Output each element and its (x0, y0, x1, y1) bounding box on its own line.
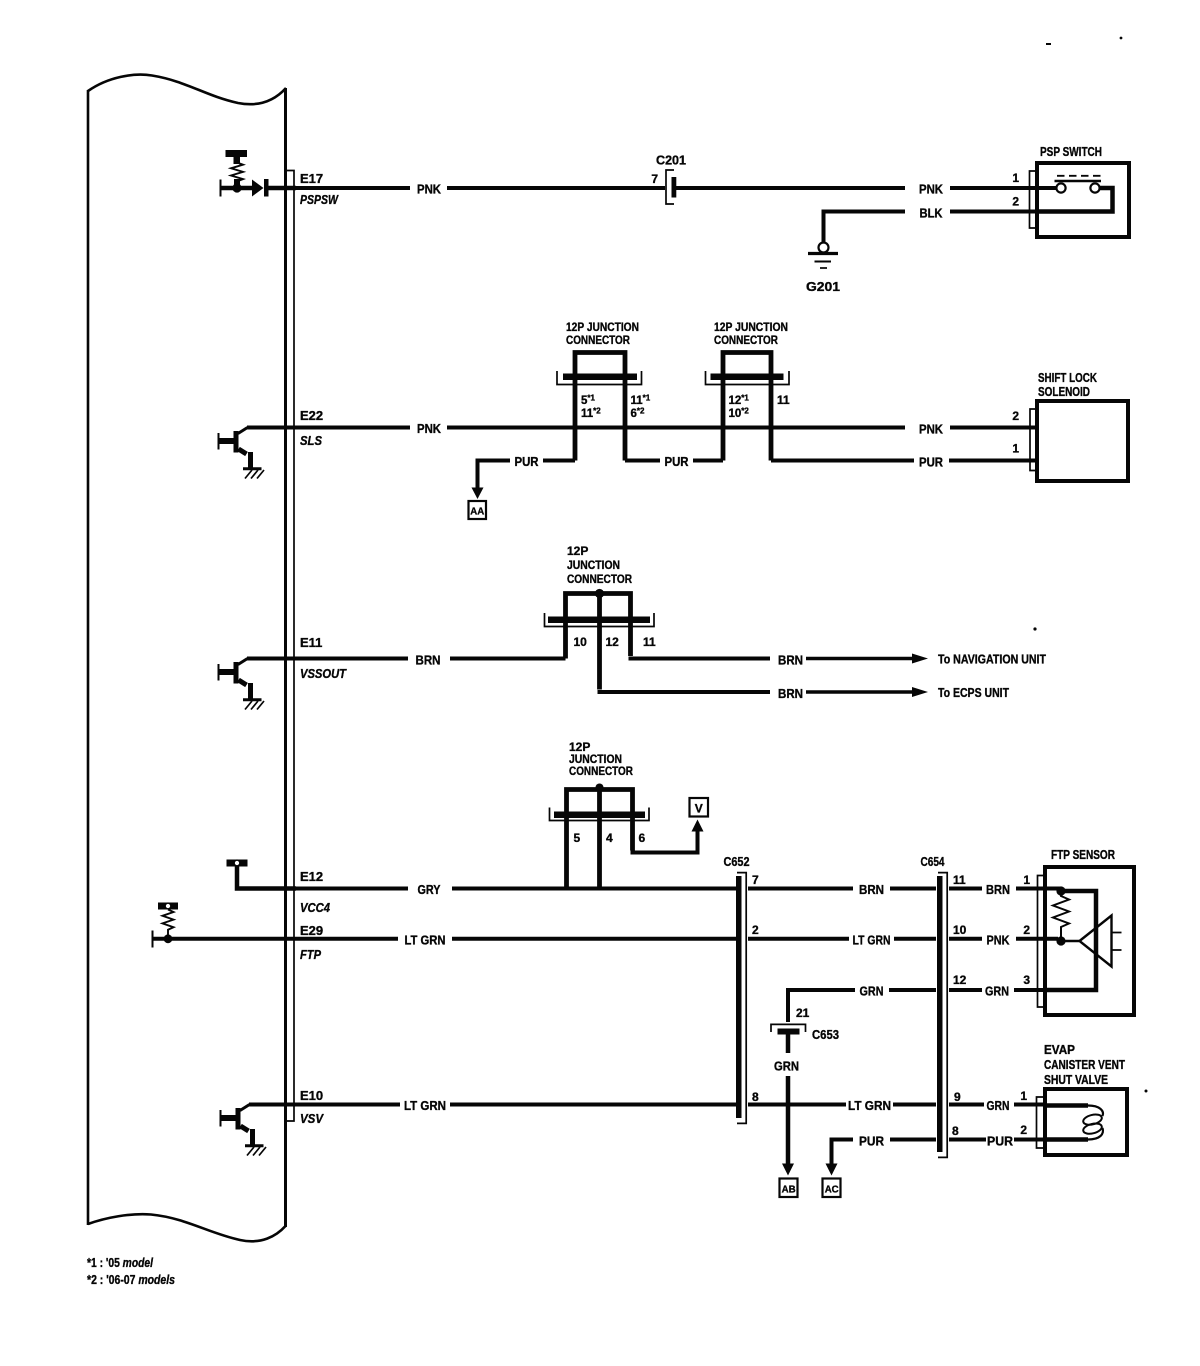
svg-text:SHIFT LOCK: SHIFT LOCK (1038, 370, 1097, 385)
wire PUR segment (C654 to EVAP pin 2) (949, 1138, 1045, 1142)
junction 2 left leg (pins 12/10) (721, 380, 726, 461)
destination box AB (780, 1179, 798, 1198)
junction 4 leg pin 5 (564, 818, 569, 889)
svg-text:CONNECTOR: CONNECTOR (714, 333, 778, 347)
FTP internal node dot pin 1 (1056, 886, 1065, 895)
svg-text:1: 1 (1012, 442, 1019, 456)
destination box AC (823, 1179, 841, 1198)
12P junction connector 2 symbol (706, 353, 790, 385)
scan speck (1120, 37, 1123, 40)
svg-text:BRN: BRN (778, 686, 803, 701)
wire PNK segment (E22 to junction) (247, 426, 905, 430)
svg-text:E11: E11 (300, 635, 322, 650)
amplifier output ticks (1112, 933, 1122, 951)
wire BLK segment (PSP switch pin 2 to ground) (824, 212, 1038, 243)
connector C653 symbol (771, 1024, 806, 1034)
svg-text:6: 6 (639, 831, 646, 845)
switch internal return wire to pin 2 (1037, 188, 1113, 212)
svg-text:PUR: PUR (987, 1134, 1014, 1149)
ECM connector strip line along right edge (287, 171, 294, 1122)
ECM/PCM box bottom wavy edge (88, 1214, 286, 1241)
wire BRN segment (C652 to C654) (748, 887, 936, 891)
svg-text:LT GRN: LT GRN (405, 933, 446, 948)
junction 3 leg pin 10 (563, 623, 568, 659)
12P junction connector 4 symbol (550, 784, 650, 821)
svg-text:CONNECTOR: CONNECTOR (567, 572, 632, 586)
svg-text:E22: E22 (300, 408, 323, 423)
5V pull-up symbol (E29 FTP) (158, 903, 178, 910)
svg-text:2: 2 (1020, 1123, 1027, 1137)
svg-text:FTP SENSOR: FTP SENSOR (1051, 847, 1115, 862)
svg-text:CANISTER VENT: CANISTER VENT (1044, 1058, 1125, 1072)
12P junction connector 1 symbol (557, 353, 642, 385)
svg-text:12P JUNCTION: 12P JUNCTION (714, 320, 788, 334)
svg-text:12P: 12P (567, 544, 588, 558)
connector C654 symbol (multi-pin inline) (937, 873, 947, 1158)
svg-text:BRN: BRN (778, 653, 803, 668)
svg-text:2: 2 (1012, 195, 1019, 209)
connector C201 symbol (666, 170, 676, 204)
wire LT GRN segment (C652 to C654 pin 10) (748, 937, 936, 941)
EVAP solenoid coil top lead (1045, 1103, 1088, 1108)
driver transistor Q (E11 VSSOUT) (218, 659, 264, 710)
SHIFT LOCK SOLENOID box (1037, 401, 1128, 481)
wire GRY segment (E12 to junction 4) (296, 887, 736, 891)
svg-text:PUR: PUR (859, 1134, 885, 1149)
svg-text:21: 21 (796, 1006, 810, 1020)
wire from VCC4 symbol to pin E12 (237, 866, 296, 889)
wire GRN vertical (C653 to AB) (786, 1035, 791, 1165)
svg-text:E10: E10 (300, 1088, 323, 1103)
arrow up to V (692, 820, 704, 832)
svg-text:PNK: PNK (987, 933, 1011, 948)
EVAP solenoid coil bottom lead (1045, 1137, 1088, 1142)
junction 2 right leg (pin 11) (769, 380, 774, 461)
switch contact circle 2 (1090, 183, 1099, 192)
wire left end tick (E29) (152, 931, 154, 948)
svg-text:E17: E17 (300, 171, 323, 186)
junction 4 leg pin 4 (597, 818, 602, 889)
FTP internal node dot pin 2 (1056, 936, 1065, 945)
switch contact circle 1 (1056, 183, 1065, 192)
svg-text:FTP: FTP (300, 947, 321, 962)
wire from diode to pin E17 (268, 186, 296, 191)
svg-text:GRN: GRN (774, 1059, 799, 1074)
svg-text:2: 2 (752, 923, 759, 937)
svg-text:VCC4: VCC4 (300, 900, 331, 915)
svg-text:BRN: BRN (859, 882, 884, 897)
svg-text:AA: AA (470, 506, 484, 518)
5V pull-up supply symbol (inside ECM, E17 circuit) (226, 150, 248, 164)
PSP SWITCH connector bracket (1030, 171, 1038, 228)
resistor-to-node stem (234, 179, 240, 188)
svg-text:VSSOUT: VSSOUT (300, 666, 347, 681)
svg-text:10: 10 (953, 923, 967, 937)
svg-text:C201: C201 (656, 153, 686, 168)
svg-text:1: 1 (1023, 873, 1030, 887)
svg-text:7: 7 (752, 873, 759, 887)
svg-text:AB: AB (782, 1184, 796, 1196)
svg-text:PUR: PUR (919, 455, 944, 470)
wire BRN segment to navigation unit (629, 657, 771, 661)
EVAP valve box (1045, 1089, 1127, 1155)
destination box V (690, 798, 709, 817)
PSP SWITCH box (1037, 163, 1129, 237)
svg-text:SHUT VALVE: SHUT VALVE (1044, 1073, 1108, 1087)
ECM/PCM box top wavy edge (88, 75, 286, 105)
switch blade (1055, 180, 1102, 183)
arrow down to AC (826, 1164, 838, 1176)
connector C652 symbol (multi-pin inline) (736, 873, 746, 1124)
svg-text:GRN: GRN (860, 984, 884, 999)
svg-text:V: V (695, 802, 703, 816)
solenoid connector bracket (1030, 409, 1037, 471)
5V reference symbol VCC4 (E12) (227, 860, 248, 867)
svg-text:2: 2 (1023, 923, 1030, 937)
svg-text:C654: C654 (921, 854, 946, 869)
ECM/PCM box left edge (87, 90, 90, 1225)
svg-text:7: 7 (651, 172, 658, 186)
svg-text:*1 : '05 model: *1 : '05 model (87, 1256, 153, 1270)
svg-text:PNK: PNK (919, 422, 944, 437)
scan speck top right (1046, 43, 1051, 45)
destination box AA (469, 501, 487, 519)
svg-text:11: 11 (643, 635, 656, 649)
svg-text:VSV: VSV (300, 1111, 324, 1126)
wire PNK segment (C654 to FTP pin 2) (949, 937, 1058, 941)
svg-text:BRN: BRN (416, 653, 441, 668)
wire BRN segment (E11 to junction pin 10) (247, 657, 566, 661)
EVAP connector bracket (1037, 1097, 1045, 1148)
svg-text:AC: AC (825, 1184, 839, 1196)
FTP SENSOR box (1045, 867, 1134, 1015)
svg-text:SLS: SLS (300, 433, 322, 448)
svg-text:12: 12 (953, 973, 967, 987)
wire GRN segment (C654 to FTP pin 3) (949, 988, 1045, 992)
EVAP solenoid coil (1082, 1106, 1103, 1140)
scan speck (1145, 1090, 1148, 1093)
svg-text:PNK: PNK (417, 182, 442, 197)
pull-up resistor (E17 circuit) (231, 163, 243, 182)
svg-text:GRY: GRY (418, 882, 441, 897)
node junction dot (pull-up to signal) (232, 183, 241, 192)
junction 4 leg pin 6 (to V) (630, 818, 635, 851)
FTP internal supply loop wiring (1045, 891, 1096, 990)
svg-text:LT GRN: LT GRN (404, 1098, 446, 1113)
switch actuation dashed line (1057, 175, 1101, 177)
svg-text:JUNCTION: JUNCTION (567, 558, 620, 572)
svg-text:To NAVIGATION UNIT: To NAVIGATION UNIT (938, 653, 1046, 667)
svg-text:1: 1 (1020, 1089, 1027, 1103)
svg-text:E12: E12 (300, 869, 323, 884)
svg-text:PNK: PNK (919, 182, 944, 197)
pull-up resistor (E29) (163, 910, 174, 936)
wire LT GRN segment (E29 to C652 pin 2) (153, 937, 737, 941)
svg-text:GRN: GRN (987, 1098, 1010, 1113)
svg-text:PSP SWITCH: PSP SWITCH (1040, 144, 1102, 159)
svg-text:PUR: PUR (515, 454, 540, 469)
driver transistor Q (E10 VSV) (220, 1105, 266, 1156)
svg-text:1: 1 (1012, 171, 1019, 185)
svg-text:PUR: PUR (665, 454, 690, 469)
svg-text:11: 11 (777, 393, 790, 407)
wire PUR segment (junction2 to solenoid pin 1) (771, 459, 1037, 463)
junction 1 left leg (pins 5/11) (573, 380, 578, 461)
svg-text:C652: C652 (724, 854, 750, 869)
svg-text:C653: C653 (812, 1027, 839, 1042)
scan speck (1033, 627, 1036, 630)
svg-text:11: 11 (953, 873, 966, 887)
svg-text:10: 10 (574, 635, 588, 649)
arrow line to NAVIGATION UNIT (806, 657, 914, 660)
svg-text:E29: E29 (300, 923, 323, 938)
FTP internal wire to amplifier (1061, 940, 1079, 942)
wire from junction pin 6 to V arrow (631, 831, 698, 853)
wire internal E17 segment (221, 186, 253, 191)
ECM/PCM box right edge (284, 88, 287, 1227)
svg-text:G201: G201 (806, 279, 840, 294)
FTP internal amplifier triangle (1080, 916, 1112, 967)
svg-text:BRN: BRN (986, 882, 1010, 897)
svg-text:EVAP: EVAP (1044, 1043, 1075, 1057)
junction 1 right leg (pins 11/6) (623, 380, 628, 461)
wire PUR segment to AA (478, 461, 576, 489)
12P junction connector 3 symbol (545, 589, 655, 627)
wire left end tick (E17 internal) (220, 180, 222, 197)
arrow line to ECPS UNIT (806, 690, 914, 693)
arrow down to AA (472, 488, 484, 500)
wire GRN segment (C654 to EVAP pin 1) (949, 1103, 1045, 1107)
svg-text:8: 8 (752, 1090, 759, 1104)
wire BRN segment to ECPS unit (598, 690, 771, 694)
wire PNK segment (E17 to C201) (296, 186, 665, 190)
svg-text:12: 12 (606, 635, 620, 649)
svg-text:8: 8 (952, 1124, 959, 1138)
wire PNK segment (C201 to PSP switch pin 1) (676, 186, 1057, 190)
svg-text:9: 9 (954, 1090, 961, 1104)
FTP sensor connector bracket (1038, 876, 1046, 1008)
wire BRN segment (C654 to FTP pin 1) (949, 887, 1061, 891)
junction 3 leg pin 12 (to ECPS) (597, 623, 602, 690)
svg-text:5: 5 (574, 831, 581, 845)
svg-text:LT GRN: LT GRN (848, 1098, 891, 1113)
svg-text:3: 3 (1023, 973, 1030, 987)
svg-text:PNK: PNK (417, 421, 442, 436)
wire PNK right segment (to solenoid pin 2) (950, 426, 1037, 430)
svg-text:4: 4 (606, 831, 613, 845)
svg-text:12P JUNCTION: 12P JUNCTION (566, 320, 639, 334)
svg-text:LT GRN: LT GRN (853, 933, 891, 948)
driver transistor Q (E22 SLS output) (218, 428, 264, 479)
wire PUR segment (junction1 to junction2) (625, 459, 723, 463)
ground G201 symbol (808, 243, 838, 269)
svg-text:CONNECTOR: CONNECTOR (569, 764, 633, 778)
node junction dot (E29) (164, 934, 173, 943)
buffer diode (E17 input) (252, 180, 264, 197)
junction 3 leg pin 11 (to NAVI) (628, 623, 633, 656)
svg-text:2: 2 (1012, 409, 1019, 423)
svg-text:PSPSW: PSPSW (300, 192, 339, 207)
svg-text:SOLENOID: SOLENOID (1038, 384, 1090, 399)
wire LT GRN segment (E10 to C652 pin 8) (249, 1103, 736, 1107)
wire LT GRN segment (C652 to C654 pin 9) (748, 1103, 936, 1107)
wire PUR segment (AC elbow to C654 pin 8) (832, 1140, 937, 1165)
FTP internal resistor (1053, 891, 1069, 941)
arrow down to AB (782, 1164, 794, 1176)
svg-text:BLK: BLK (920, 206, 944, 221)
svg-text:To ECPS UNIT: To ECPS UNIT (938, 686, 1009, 700)
svg-text:CONNECTOR: CONNECTOR (566, 333, 630, 347)
diode cathode bar (264, 179, 269, 197)
wire GRN segment (C654 pin 12, elbow down to C653) (788, 990, 936, 1022)
svg-text:*2 : '06-07 models: *2 : '06-07 models (87, 1273, 175, 1287)
svg-text:GRN: GRN (985, 984, 1009, 999)
